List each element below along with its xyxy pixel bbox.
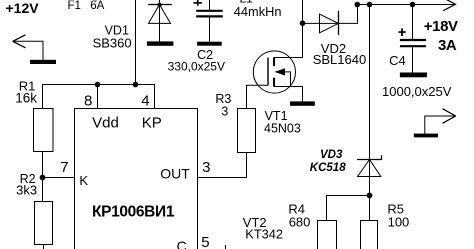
capacitor C4 wire top	[412, 5, 414, 41]
svg-text:KP: KP	[142, 114, 162, 131]
wire pin 7	[43, 177, 75, 179]
wire R3 to OUT pin 3	[198, 153, 247, 178]
svg-text:F1: F1	[68, 0, 81, 12]
svg-text:SBL1640: SBL1640	[313, 52, 367, 67]
svg-text:16k: 16k	[15, 90, 37, 105]
capacitor C2 wire bottom	[209, 16, 211, 41]
wire feedback to R4	[327, 196, 370, 221]
transistor VT1 circle	[253, 51, 295, 93]
svg-text:7: 7	[60, 159, 68, 176]
svg-text:OUT: OUT	[160, 166, 190, 182]
junction dot bus/VD3	[367, 2, 373, 8]
svg-text:3: 3	[221, 105, 228, 119]
junction dot switch node	[300, 20, 306, 26]
resistor R4	[318, 221, 337, 249]
ground (C4)	[400, 73, 427, 78]
capacitor C4 wire bottom	[412, 46, 414, 72]
IC U1 KR1006VI1 box	[75, 109, 198, 249]
transistor VT1 channel bottom segment	[273, 78, 275, 87]
output bus arrowhead	[443, 0, 455, 11]
capacitor C2 wire top	[209, 0, 211, 11]
resistor R2	[35, 202, 53, 245]
junction dot feedback node	[367, 193, 373, 199]
svg-text:3A: 3A	[438, 37, 457, 54]
zener diode VD3 feed wire	[369, 5, 371, 221]
svg-text:5: 5	[201, 234, 209, 249]
svg-text:6A: 6A	[90, 0, 104, 12]
ground (VT1 source)	[290, 101, 315, 105]
transistor VT1 substrate arrow	[275, 68, 286, 75]
junction dot bus/VD2	[355, 2, 361, 8]
junction dot rail/+12 feed	[133, 82, 139, 88]
diode VD2 anode wire	[303, 22, 339, 24]
svg-text:330,0x25V: 330,0x25V	[168, 60, 225, 74]
diode VD1 apex dot	[157, 3, 161, 7]
diode VD2 cathode wire	[339, 5, 358, 24]
ground (output terminal)	[414, 134, 438, 138]
svg-text:3k3: 3k3	[16, 183, 37, 198]
svg-text:+12V: +12V	[6, 0, 40, 16]
wire +12V feed down	[135, 0, 137, 85]
svg-text:Vdd: Vdd	[92, 114, 119, 131]
transistor VT1 gate wire	[247, 85, 269, 108]
svg-text:680: 680	[289, 215, 311, 230]
svg-text:4: 4	[141, 93, 149, 110]
ground (C2)	[197, 42, 222, 46]
ground (input terminal)	[30, 60, 56, 64]
resistor R5	[361, 221, 378, 249]
diode VD2 cathode bar	[338, 11, 340, 35]
svg-text:8: 8	[84, 93, 92, 110]
svg-text:100: 100	[388, 215, 410, 230]
fuse F1 cut-off symbol remnant	[70, 0, 74, 1]
output arrow terminal	[425, 109, 456, 134]
resistor R1	[34, 109, 54, 152]
svg-text:VD3: VD3	[320, 149, 343, 161]
diode VD1 wire	[159, 0, 161, 41]
transistor VT1 source wire	[274, 87, 303, 102]
svg-text:КР1006ВИ1: КР1006ВИ1	[92, 203, 175, 220]
supply rail wire	[43, 85, 155, 109]
fuse F1 cut-off symbol remnant 2	[93, 0, 97, 1]
zener diode VD3 triangle	[358, 160, 381, 177]
+18V output bus wire	[358, 4, 456, 6]
svg-text:45N03: 45N03	[264, 121, 301, 135]
transistor VT1 substrate wire	[285, 72, 291, 87]
svg-text:1000,0x25V: 1000,0x25V	[382, 84, 452, 99]
svg-text:C4: C4	[389, 53, 406, 68]
junction dot bus/C4	[410, 2, 416, 8]
transistor VT1 gate line	[267, 58, 269, 86]
zener diode VD3 cathode bar	[357, 155, 382, 159]
svg-text:C: C	[177, 238, 187, 249]
diode VD1 triangle	[149, 5, 171, 24]
svg-text:SB360: SB360	[93, 35, 132, 50]
wire L1 to switch node / drain	[274, 0, 303, 58]
wire R2 bottom	[43, 245, 45, 249]
svg-text:KT342: KT342	[245, 226, 283, 241]
capacitor C2 plus mark	[193, 0, 202, 6]
svg-text:3: 3	[202, 159, 210, 176]
resistor R3	[238, 109, 256, 153]
svg-text:K: K	[79, 173, 88, 188]
wire VT2 collector stub	[225, 245, 227, 249]
ground (VD1)	[147, 41, 174, 45]
node K junction dot	[40, 175, 46, 181]
capacitor C4 plus mark	[398, 28, 405, 36]
capacitor C4 plates	[400, 40, 426, 46]
wire R1 to R2	[42, 152, 44, 202]
input arrow terminal	[13, 35, 43, 60]
svg-text:44mkHn: 44mkHn	[234, 4, 282, 19]
transistor VT1 channel top segment	[273, 58, 275, 67]
diode VD1 cathode bar	[148, 4, 172, 6]
svg-text:KC518: KC518	[310, 162, 346, 174]
wire pin 8 stub	[97, 85, 99, 109]
diode VD2 triangle	[320, 14, 339, 33]
svg-text:+18V: +18V	[424, 18, 458, 35]
capacitor C2 plates	[196, 11, 223, 17]
junction dot rail/pin8	[95, 82, 101, 88]
